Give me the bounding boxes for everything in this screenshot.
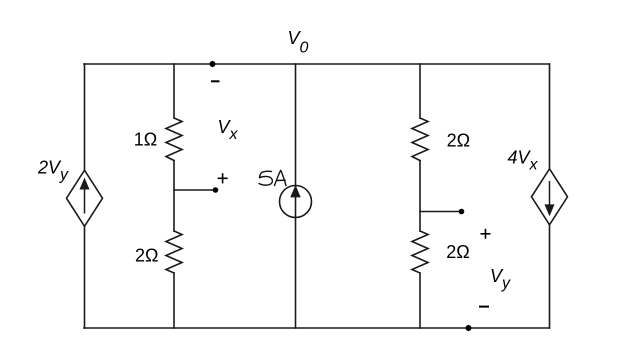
wire stub Vy plus terminal [420, 211, 461, 213]
resistor R4 2ohm zigzag [412, 231, 428, 273]
node dot Vy plus terminal [459, 209, 465, 215]
arrow of source 2Vy (up) [81, 180, 89, 214]
wire branch C middle [419, 161, 421, 232]
svg-text:2Ω: 2Ω [446, 242, 469, 262]
svg-text:2Ω: 2Ω [447, 130, 470, 150]
wire branch A top [173, 64, 175, 118]
svg-text:2Ω: 2Ω [135, 245, 158, 265]
node dot on bottom rail [466, 325, 472, 331]
wire right lower [549, 225, 551, 328]
dependent source U2 4Vx diamond [532, 169, 568, 225]
wire branch C bottom [419, 273, 421, 328]
svg-text:4Vx: 4Vx [508, 148, 539, 174]
wire bottom rail [84, 327, 550, 329]
minus sign of Vy polarity [479, 306, 489, 308]
resistor R3 2ohm zigzag [412, 118, 428, 161]
wire top rail [84, 63, 550, 65]
svg-text:V0: V0 [288, 28, 309, 57]
node dot Vx plus terminal [213, 187, 219, 193]
plus sign of Vx polarity [218, 173, 228, 183]
wire branch A bottom [173, 273, 175, 328]
plus sign of Vy polarity [481, 229, 491, 239]
arrow of source 5A (up) [291, 186, 300, 197]
minus sign of V0/Vx polarity [211, 80, 220, 82]
dependent source U1 2Vy diamond [67, 170, 103, 226]
wire branch B (5A) [295, 64, 297, 328]
label 5A handwritten [259, 170, 286, 185]
node dot on top rail [210, 61, 216, 67]
svg-text:1Ω: 1Ω [134, 130, 157, 150]
wire right upper [549, 64, 551, 169]
wire left upper [84, 64, 86, 170]
svg-text:Vx: Vx [218, 117, 239, 143]
resistor R1 1ohm zigzag [166, 118, 182, 161]
wire branch C top [419, 64, 421, 118]
svg-text:Vy: Vy [490, 266, 511, 292]
wire stub Vx plus terminal [174, 189, 215, 191]
wire branch A middle [173, 161, 175, 232]
current source I1 5A circle [280, 186, 312, 218]
resistor R2 2ohm zigzag [166, 231, 182, 273]
wire left lower [84, 226, 86, 328]
arrow of source 4Vx (down) [546, 181, 554, 214]
svg-text:2Vy: 2Vy [37, 158, 69, 184]
